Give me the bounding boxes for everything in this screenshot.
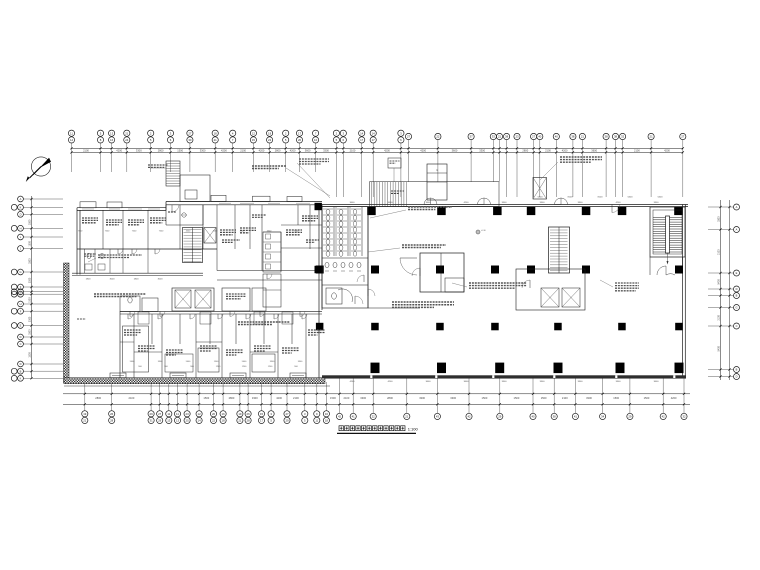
svg-text:19: 19: [83, 412, 87, 416]
svg-text:4200: 4200: [116, 148, 122, 152]
svg-text:3300: 3300: [717, 216, 720, 222]
svg-text:42: 42: [467, 415, 471, 419]
svg-text:1500: 1500: [28, 352, 31, 358]
svg-text:2100: 2100: [129, 396, 135, 400]
svg-text:32: 32: [621, 135, 625, 139]
svg-text:2100: 2100: [562, 396, 568, 400]
svg-text:2100: 2100: [344, 396, 350, 400]
svg-text:C: C: [20, 342, 22, 346]
svg-text:40: 40: [531, 415, 535, 419]
svg-text:21: 21: [405, 415, 409, 419]
svg-text:3600: 3600: [452, 148, 458, 152]
svg-text:34: 34: [601, 415, 605, 419]
svg-text:21: 21: [650, 135, 654, 139]
svg-text:41: 41: [574, 415, 578, 419]
svg-text:A: A: [20, 197, 22, 201]
svg-text:37: 37: [470, 135, 474, 139]
svg-text:H: H: [20, 302, 22, 306]
svg-text:30: 30: [188, 138, 192, 142]
svg-text:D: D: [736, 287, 738, 291]
svg-text:40: 40: [555, 135, 559, 139]
svg-text:3300: 3300: [616, 381, 622, 383]
svg-text:42: 42: [338, 415, 342, 419]
svg-text:12: 12: [252, 131, 256, 135]
svg-text:3300: 3300: [654, 202, 660, 204]
svg-text:3600: 3600: [591, 148, 597, 152]
svg-text:22: 22: [372, 415, 376, 419]
svg-text:4200: 4200: [388, 381, 394, 383]
svg-text:38: 38: [605, 135, 609, 139]
svg-text:3300: 3300: [540, 381, 546, 383]
svg-text:25: 25: [186, 419, 190, 423]
svg-text:2100: 2100: [240, 148, 246, 152]
svg-text:19: 19: [268, 131, 272, 135]
svg-text:5400: 5400: [628, 197, 634, 199]
svg-text:5400: 5400: [717, 279, 720, 285]
svg-text:4200: 4200: [221, 148, 227, 152]
svg-text:40: 40: [538, 135, 542, 139]
svg-text:2100: 2100: [293, 396, 299, 400]
svg-text:1500: 1500: [644, 396, 650, 400]
svg-text:29: 29: [158, 419, 162, 423]
svg-text:10: 10: [314, 138, 318, 142]
svg-text:H: H: [20, 226, 22, 230]
svg-text:27: 27: [188, 131, 192, 135]
svg-text:4200: 4200: [290, 148, 296, 152]
svg-text:20: 20: [298, 138, 302, 142]
svg-text:23: 23: [515, 135, 519, 139]
svg-text:8100: 8100: [598, 197, 604, 199]
svg-text:4200: 4200: [384, 148, 390, 152]
svg-text:26: 26: [247, 412, 251, 416]
svg-text:24: 24: [125, 138, 129, 142]
svg-text:3600: 3600: [654, 381, 660, 383]
svg-text:18: 18: [222, 419, 226, 423]
svg-text:23: 23: [186, 412, 190, 416]
svg-text:3000: 3000: [110, 278, 116, 280]
svg-text:31: 31: [150, 419, 154, 423]
svg-text:2100: 2100: [717, 314, 720, 320]
svg-text:4200: 4200: [562, 148, 568, 152]
svg-text:3300: 3300: [252, 396, 258, 400]
svg-text:3300: 3300: [502, 202, 508, 204]
svg-text:14: 14: [198, 419, 202, 423]
svg-text:27: 27: [407, 135, 411, 139]
svg-text:A: A: [736, 205, 738, 209]
svg-text:3300: 3300: [200, 148, 206, 152]
svg-text:21: 21: [125, 131, 129, 135]
svg-text:E: E: [736, 271, 738, 275]
svg-text:D: D: [20, 212, 22, 216]
svg-text:3600: 3600: [305, 148, 311, 152]
svg-text:2800: 2800: [158, 148, 164, 152]
svg-text:8100: 8100: [568, 197, 574, 199]
svg-text:G: G: [735, 306, 737, 310]
svg-text:3300: 3300: [360, 396, 366, 400]
svg-text:D: D: [20, 335, 22, 339]
svg-text:1500: 1500: [177, 148, 183, 152]
svg-text:B: B: [736, 368, 738, 372]
svg-text:11: 11: [167, 412, 170, 416]
svg-text:13: 13: [176, 419, 180, 423]
svg-text:28: 28: [110, 419, 114, 423]
svg-text:29: 29: [498, 415, 502, 419]
svg-text:B: B: [20, 369, 22, 373]
svg-text:13: 13: [110, 131, 114, 135]
svg-text:12: 12: [198, 412, 202, 416]
svg-text:2800: 2800: [522, 148, 528, 152]
svg-text:43: 43: [436, 415, 440, 419]
svg-text:A: A: [736, 228, 738, 232]
svg-text:21: 21: [238, 419, 242, 423]
svg-text:13: 13: [167, 419, 171, 423]
svg-text:38: 38: [505, 135, 509, 139]
svg-text:3300: 3300: [540, 202, 546, 204]
svg-text:3600: 3600: [426, 381, 432, 383]
svg-text:1:100: 1:100: [408, 427, 419, 432]
svg-text:29: 29: [285, 419, 289, 423]
svg-text:4200: 4200: [664, 148, 670, 152]
svg-text:K: K: [20, 376, 22, 380]
svg-text:29: 29: [628, 415, 632, 419]
svg-text:18: 18: [214, 131, 218, 135]
svg-text:21: 21: [83, 419, 87, 423]
svg-text:33: 33: [492, 135, 496, 139]
svg-text:27: 27: [158, 412, 162, 416]
svg-text:38: 38: [571, 135, 575, 139]
svg-text:3300: 3300: [586, 396, 592, 400]
svg-text:21: 21: [581, 135, 585, 139]
svg-text:3600: 3600: [426, 202, 432, 204]
svg-text:2100: 2100: [350, 148, 356, 152]
svg-text:1500: 1500: [613, 396, 619, 400]
svg-text:42: 42: [662, 415, 666, 419]
svg-text:1500: 1500: [541, 396, 547, 400]
svg-text:3300: 3300: [28, 316, 31, 322]
svg-text:16: 16: [325, 412, 329, 416]
svg-text:4200: 4200: [259, 148, 265, 152]
svg-text:17: 17: [298, 131, 302, 135]
svg-text:41: 41: [352, 415, 356, 419]
svg-text:2100: 2100: [634, 148, 640, 152]
svg-text:27: 27: [681, 135, 685, 139]
svg-text:38: 38: [553, 415, 557, 419]
svg-text:5400: 5400: [658, 197, 664, 199]
svg-text:4200: 4200: [464, 202, 470, 204]
svg-text:16: 16: [110, 138, 114, 142]
svg-text:K: K: [20, 292, 22, 296]
svg-text:3300: 3300: [419, 396, 425, 400]
svg-text:3300: 3300: [502, 381, 508, 383]
svg-text:2100: 2100: [545, 148, 551, 152]
svg-text:16: 16: [222, 412, 226, 416]
svg-text:4200: 4200: [350, 381, 356, 383]
svg-text:38: 38: [614, 135, 618, 139]
svg-text:4200: 4200: [616, 202, 622, 204]
svg-text:5400: 5400: [538, 197, 544, 199]
svg-text:22: 22: [212, 419, 216, 423]
svg-text:21: 21: [214, 138, 218, 142]
svg-text:20: 20: [212, 412, 216, 416]
svg-text:21: 21: [498, 135, 502, 139]
svg-text:1500: 1500: [203, 396, 209, 400]
svg-text:22: 22: [268, 138, 272, 142]
svg-text:3300: 3300: [28, 277, 31, 283]
svg-text:E: E: [20, 324, 22, 328]
svg-text:4200: 4200: [420, 148, 426, 152]
svg-text:3000: 3000: [158, 278, 164, 280]
svg-text:14: 14: [372, 131, 376, 135]
svg-text:27: 27: [532, 135, 536, 139]
svg-text:4200: 4200: [671, 396, 677, 400]
svg-text:3300: 3300: [323, 148, 329, 152]
svg-text:29: 29: [150, 412, 154, 416]
svg-text:11: 11: [315, 419, 318, 423]
svg-text:2800: 2800: [229, 396, 235, 400]
svg-text:22: 22: [436, 135, 440, 139]
svg-text:14: 14: [70, 138, 74, 142]
svg-text:3600: 3600: [388, 202, 394, 204]
svg-text:1500: 1500: [28, 240, 31, 246]
svg-text:14: 14: [360, 131, 364, 135]
svg-text:3300: 3300: [479, 148, 485, 152]
svg-text:17: 17: [260, 419, 264, 423]
svg-text:C: C: [736, 324, 738, 328]
svg-text:3600: 3600: [350, 202, 356, 204]
svg-text:2800: 2800: [275, 148, 281, 152]
svg-text:1800: 1800: [86, 278, 92, 280]
svg-text:2800: 2800: [95, 396, 101, 400]
svg-text:3300: 3300: [28, 258, 31, 264]
svg-text:3300: 3300: [136, 148, 142, 152]
svg-text:2100: 2100: [83, 148, 89, 152]
svg-text:4200: 4200: [276, 396, 282, 400]
svg-text:1500: 1500: [330, 396, 336, 400]
svg-text:17: 17: [360, 138, 364, 142]
svg-text:3300: 3300: [578, 381, 584, 383]
svg-text:19: 19: [238, 412, 242, 416]
svg-text:1500: 1500: [514, 396, 520, 400]
svg-text:27: 27: [285, 412, 289, 416]
svg-text:5400: 5400: [717, 345, 720, 351]
svg-text:D: D: [736, 375, 738, 379]
svg-text:B: B: [736, 294, 738, 298]
svg-text:2800: 2800: [387, 396, 393, 400]
svg-text:11: 11: [70, 131, 73, 135]
svg-text:18: 18: [325, 419, 329, 423]
svg-text:D: D: [20, 362, 22, 366]
svg-text:11: 11: [176, 412, 179, 416]
svg-text:17: 17: [372, 138, 376, 142]
svg-text:28: 28: [247, 419, 251, 423]
svg-text:15: 15: [260, 412, 264, 416]
svg-text:3600: 3600: [464, 381, 470, 383]
svg-text:K: K: [20, 205, 22, 209]
svg-text:G: G: [19, 270, 21, 274]
svg-text:1500: 1500: [28, 297, 31, 303]
svg-text:15: 15: [252, 138, 256, 142]
svg-text:3300: 3300: [450, 396, 456, 400]
svg-text:32: 32: [682, 415, 686, 419]
svg-text:3300: 3300: [28, 219, 31, 225]
svg-text:3300: 3300: [578, 202, 584, 204]
svg-text:2100: 2100: [717, 249, 720, 255]
svg-text:1500: 1500: [482, 396, 488, 400]
svg-text:3300: 3300: [28, 329, 31, 335]
svg-text:26: 26: [110, 412, 114, 416]
svg-text:1800: 1800: [134, 278, 140, 280]
